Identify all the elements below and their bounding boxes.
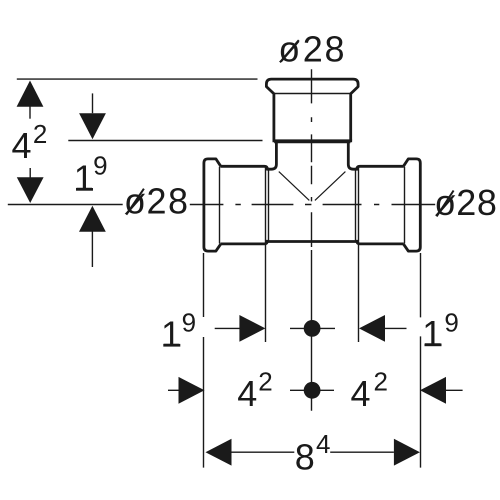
svg-text:4: 4	[316, 429, 330, 459]
horizontal centerline left solid segment	[8, 204, 123, 206]
svg-text:ø: ø	[278, 28, 300, 69]
run bottom edge	[267, 240, 357, 243]
dim 1x9 top: up arrow stem	[91, 232, 93, 268]
top socket flare outline	[266, 79, 358, 140]
svg-text:4: 4	[351, 373, 371, 414]
left socket top edge	[220, 166, 267, 170]
dim row3 right stem	[330, 451, 394, 453]
diagonal right	[315, 172, 346, 201]
svg-text:2: 2	[456, 182, 476, 223]
slash of diameter symbol right	[437, 191, 454, 217]
dim row3 left stem	[231, 451, 294, 453]
svg-text:ø: ø	[124, 181, 146, 222]
arrow right (row3 right)	[394, 439, 420, 466]
vertical centerline branch	[311, 69, 313, 411]
arrow up (1x9 lower)	[79, 206, 106, 232]
extension line left seam	[265, 168, 267, 343]
slash of diameter symbol left	[126, 189, 144, 215]
dim row1 right stem	[385, 327, 407, 329]
svg-text:8: 8	[325, 28, 345, 69]
svg-text:8: 8	[295, 436, 315, 477]
arrow down (1x9)	[79, 113, 106, 139]
arrow left (row3 left)	[206, 439, 232, 466]
arrow down (4x2 to centerline)	[17, 177, 44, 203]
svg-text:1: 1	[161, 314, 181, 355]
extension line left flare edge	[203, 253, 205, 468]
extension line right flare edge	[420, 253, 422, 468]
svg-text:9: 9	[182, 308, 196, 338]
svg-text:2: 2	[258, 367, 272, 397]
right socket top edge	[357, 166, 404, 170]
dim row2 dot tick	[290, 389, 334, 391]
seam inner thin line left	[268, 170, 270, 241]
dim 1x9 top: down arrow stem	[92, 93, 94, 113]
svg-text:1: 1	[422, 313, 442, 354]
dim row1 left stem	[215, 327, 240, 329]
horizontal centerline through left flare	[190, 204, 224, 206]
diagonal left	[279, 172, 310, 201]
right flare outline	[403, 159, 420, 251]
svg-text:2: 2	[33, 119, 47, 149]
extension line right seam	[358, 168, 360, 343]
svg-text:1: 1	[74, 158, 94, 199]
dim row2 left stem	[168, 389, 179, 391]
slash of diameter symbol top	[280, 40, 299, 62]
foot bar for digit 1 (bottom left)	[163, 344, 180, 347]
branch left wall	[267, 142, 276, 170]
arrow left (row2 right)	[420, 377, 446, 404]
svg-text:2: 2	[147, 181, 167, 222]
svg-text:8: 8	[477, 182, 497, 223]
arrow right (row2 left)	[179, 377, 205, 404]
seam inner thin line right	[355, 170, 357, 241]
horizontal centerline dash-dot right	[323, 204, 436, 206]
svg-text:8: 8	[168, 181, 188, 222]
right flare inner thin line	[404, 167, 406, 244]
branch right wall	[348, 142, 357, 170]
dim 4x2 top: up arrow stem	[29, 107, 31, 119]
top socket flare inner thin line	[274, 93, 350, 95]
svg-text:ø: ø	[434, 182, 456, 223]
dot row1	[304, 320, 321, 337]
top socket seam thick	[273, 139, 353, 142]
arrow right (row1 left)	[239, 315, 265, 342]
svg-text:2: 2	[374, 367, 388, 397]
arrow left (row1 right)	[359, 315, 385, 342]
svg-text:9: 9	[93, 151, 107, 181]
dimension line top (fitting top extension)	[17, 78, 258, 80]
dot row2	[304, 382, 321, 399]
foot bar for digit 1 (upper left)	[76, 188, 93, 191]
dimension line seam level extension	[68, 140, 262, 142]
top socket seam thin	[274, 142, 350, 144]
dim row1 dot tick	[290, 327, 335, 329]
left flare inner thin line	[219, 167, 221, 244]
left socket bottom edge	[220, 240, 267, 244]
left flare outline	[204, 159, 221, 251]
svg-text:9: 9	[444, 308, 458, 338]
dim 4x2 top: down arrow stem	[29, 168, 31, 178]
foot bar for digit 1 (bottom right)	[425, 344, 442, 347]
dim row2 right stem	[446, 389, 463, 391]
arrow up (4x2 top)	[17, 81, 44, 107]
svg-text:4: 4	[12, 125, 32, 166]
svg-text:4: 4	[237, 373, 257, 414]
right socket bottom edge	[357, 240, 404, 244]
svg-text:2: 2	[303, 28, 323, 69]
horizontal centerline dash-dot left	[235, 204, 311, 206]
